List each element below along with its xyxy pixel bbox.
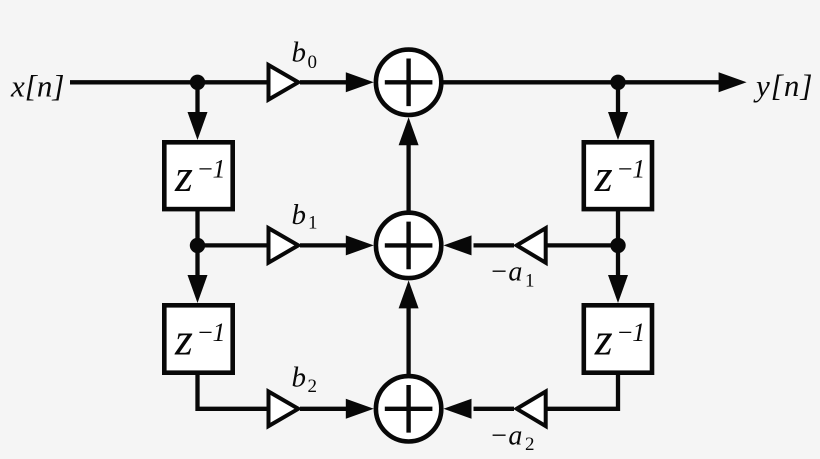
- svg-text:−a: −a: [490, 257, 523, 288]
- wire: -a2 to bottom summer with arrowhead: [444, 399, 515, 419]
- svg-text:z: z: [174, 150, 193, 201]
- wire: delay Z3 to delay Z4 through right middle node with arrowhead: [608, 209, 628, 303]
- delay block Z2 (z^-1): [164, 305, 232, 372]
- junction dot: input node: [190, 75, 205, 90]
- wire: b1 to middle summer with arrowhead: [300, 235, 374, 255]
- junction dot: output node: [610, 75, 625, 90]
- junction dot: right middle node: [610, 238, 625, 253]
- wire: b2 to bottom summer with arrowhead: [300, 399, 374, 419]
- arrowhead: output: [719, 72, 747, 92]
- svg-text:−a: −a: [490, 420, 523, 451]
- gain b0 (triangle amplifier): [269, 65, 299, 100]
- label -a1: [490, 257, 535, 292]
- delay block Z1 (z^-1): [164, 142, 232, 209]
- svg-text:z: z: [594, 150, 613, 201]
- wire: delay Z2 down and right to gain b2: [198, 373, 269, 409]
- svg-text:b: b: [292, 362, 307, 394]
- summer S1 (top adder): [376, 50, 441, 115]
- output label y[n]: [753, 68, 813, 103]
- svg-text:−1: −1: [197, 318, 225, 347]
- wire: right middle node to gain -a1: [547, 243, 618, 247]
- wire: -a1 to middle summer with arrowhead: [444, 235, 515, 255]
- delay block Z3 (z^-1): [584, 142, 652, 209]
- svg-text:b: b: [292, 37, 307, 69]
- svg-text:2: 2: [525, 434, 535, 455]
- input label x[n]: [10, 69, 64, 104]
- svg-text:2: 2: [308, 376, 318, 397]
- gain -a2 (left-pointing triangle amplifier): [517, 392, 546, 427]
- wire: delay Z1 to delay Z2 through left middle node with arrowhead: [188, 209, 208, 303]
- svg-text:y[n]: y[n]: [753, 68, 813, 103]
- delay block Z4 (z^-1): [584, 305, 652, 372]
- svg-text:−1: −1: [616, 155, 644, 184]
- svg-text:x[n]: x[n]: [10, 69, 64, 104]
- label -a2: [490, 420, 535, 455]
- wire: bottom summer up to middle summer with arrowhead: [399, 280, 419, 375]
- label b2: [292, 362, 318, 398]
- svg-text:1: 1: [525, 271, 535, 292]
- svg-text:b: b: [292, 199, 307, 231]
- svg-text:−1: −1: [197, 155, 225, 184]
- wire: delay Z4 down and left to gain -a2: [547, 373, 618, 409]
- wire: input x[n] to gain b0: [70, 80, 268, 84]
- wire: output node down to delay Z3 with arrowhead: [608, 82, 628, 140]
- label b0: [292, 37, 318, 74]
- svg-text:z: z: [594, 313, 613, 364]
- gain b2 (triangle amplifier): [269, 392, 299, 427]
- svg-text:0: 0: [308, 52, 318, 73]
- svg-text:z: z: [174, 313, 193, 364]
- summer S3 (bottom adder): [376, 376, 441, 441]
- wire: b0 to top summer with arrowhead: [300, 72, 374, 92]
- label b1: [292, 199, 318, 234]
- wire: left middle node to gain b1: [198, 243, 269, 247]
- svg-text:−1: −1: [616, 318, 644, 347]
- summer S2 (middle adder): [376, 213, 441, 278]
- svg-text:1: 1: [308, 213, 318, 234]
- junction dot: left middle node: [190, 238, 205, 253]
- wire: top summer to output y[n]: [441, 80, 720, 84]
- wire: middle summer up to top summer with arrowhead: [399, 117, 419, 212]
- wire: input node down to delay Z1 with arrowhead: [188, 82, 208, 140]
- gain b1 (triangle amplifier): [269, 228, 299, 263]
- gain -a1 (left-pointing triangle amplifier): [517, 228, 546, 263]
